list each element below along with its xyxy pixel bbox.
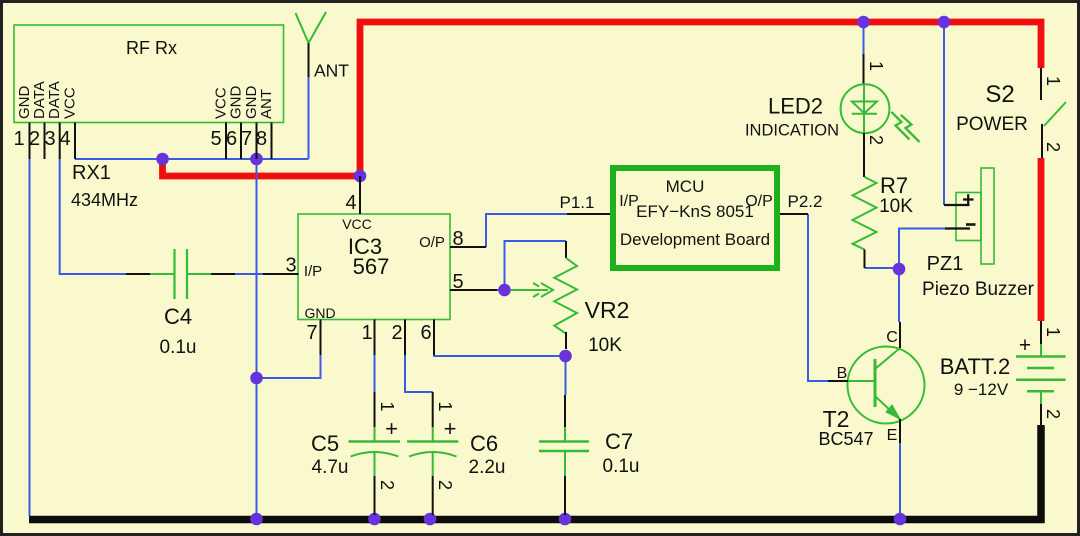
svg-text:C4: C4 [164,304,192,329]
wire node junction up to PZ1 minus [899,229,945,270]
svg-text:3: 3 [285,255,296,277]
wire node junction down to T2 collector [898,269,900,322]
svg-text:1: 1 [361,322,372,344]
svg-text:C7: C7 [605,429,633,454]
svg-text:BATT.2: BATT.2 [940,354,1011,379]
svg-text:C5: C5 [311,431,339,456]
svg-text:GND: GND [228,86,245,120]
svg-text:1: 1 [866,61,886,71]
svg-text:E: E [887,427,898,444]
svg-text:VR2: VR2 [585,297,630,323]
svg-text:2: 2 [29,128,40,150]
svg-text:VCC: VCC [62,87,79,119]
wire GND vertical x256 [256,159,258,516]
svg-text:POWER: POWER [956,114,1028,135]
junction PZ1 VCC tap [938,16,951,29]
wire IC3 pin2 jog to C6 [405,355,433,392]
svg-text:8: 8 [452,228,463,250]
wire IC3 pin7 to GND vertical [257,355,321,378]
svg-text:0.1u: 0.1u [160,337,197,358]
svg-text:ANT: ANT [314,61,349,81]
junction bus GND vertical [250,513,263,526]
resistor R7 [853,173,914,268]
buzzer PZ1 Piezo Buzzer [922,168,1035,300]
svg-text:567: 567 [353,254,390,279]
wire T2 emitter down to bus [899,443,901,516]
wire VCC junction down to LED2 pin1 [863,22,865,54]
svg-text:R7: R7 [880,173,908,198]
svg-text:I/P: I/P [304,263,322,280]
capacitor C5 (electrolytic) [311,392,400,515]
svg-text:1: 1 [1043,327,1063,337]
svg-text:2: 2 [1043,409,1063,419]
junction IC3 pin7 GND node [250,372,263,385]
svg-text:1: 1 [377,402,397,412]
pin stub RX1 pin2 [44,123,46,160]
pin stub RX1 pin3 [59,123,61,160]
svg-text:LED2: LED2 [768,94,823,119]
svg-text:6: 6 [420,322,431,344]
pin stub MCU I/P [567,213,610,215]
pin stub IC3 pin2 [404,320,406,356]
wire IC3 pin6 to VR2 bottom junction [434,355,566,356]
svg-text:9 −12V: 9 −12V [954,380,1009,399]
battery BATT.2 [940,321,1066,427]
net GND black bus [29,425,1041,520]
svg-text:RF Rx: RF Rx [126,38,177,58]
wire VCC junction down to PZ1 plus [943,22,945,205]
svg-text:+: + [444,416,457,441]
pin stub MCU O/P [780,213,808,215]
svg-text:PZ1: PZ1 [927,253,964,275]
svg-text:2: 2 [435,480,455,490]
svg-text:MCU: MCU [666,177,705,196]
svg-text:C6: C6 [470,431,498,456]
junction VR2 wiper node [498,284,511,297]
junction bus C6 [424,513,437,526]
wire RFRx pin row horizontal [75,158,309,160]
svg-text:5: 5 [452,271,463,293]
svg-text:2: 2 [866,135,886,145]
junction GND pins 6-7 [250,153,263,166]
svg-text:+: + [1019,334,1031,357]
svg-text:S2: S2 [985,81,1014,108]
wire wiper junction up to VR2 top [505,241,567,290]
wire RFRx pin1 GND down to bus [29,159,31,516]
svg-text:ANT: ANT [258,89,275,119]
pin stub IC3 pin4 VCC [359,176,361,214]
capacitor C7 [539,395,639,515]
junction IC3 VCC tap [354,170,367,183]
wire IC3 pin8 to MCU P1.1 [486,214,567,247]
junction LED2 VCC tap [857,16,870,29]
svg-text:2: 2 [1043,142,1063,152]
capacitor C4 [126,249,235,358]
pin stub RX1 pin4 [74,123,76,160]
wire VR2 bottom junction down to C7 [565,356,567,395]
svg-text:VCC: VCC [342,216,372,232]
pin stub IC3 pin1 [374,320,376,356]
svg-text:6: 6 [226,128,237,150]
pin stub RX1 pin1 [29,123,31,160]
svg-text:BC547: BC547 [818,429,873,449]
svg-text:2: 2 [391,322,402,344]
junction bus C7 [559,513,572,526]
pin stub RX1 pin6 [240,123,242,160]
svg-text:1: 1 [435,402,455,412]
pin stub RX1 pin8 [271,123,273,160]
junction bus T2 emitter [894,513,907,526]
wire RFRx pin3 DATA down to C4 [60,159,126,274]
svg-text:C: C [886,329,898,346]
wire R7 bottom to node junction [865,268,900,269]
svg-text:0.1u: 0.1u [603,456,640,477]
switch S2 POWER [956,68,1066,158]
pin stub IC3 pin7 GND [320,320,322,356]
wire C4 to IC3 I/P [235,273,263,275]
junction VR2 bottom node [559,350,572,363]
pin stub IC3 pin5 [450,289,497,291]
pin stub IC3 pin3 I/P [263,273,299,275]
svg-text:8: 8 [256,128,267,150]
svg-text:Development Board: Development Board [620,230,770,249]
svg-text:4.7u: 4.7u [312,457,349,478]
pin stub IC3 pin6 [433,320,435,356]
svg-text:EFY−KnS 8051: EFY−KnS 8051 [636,202,754,221]
svg-text:+: + [385,416,398,441]
svg-text:1: 1 [13,128,24,150]
op IC3 567 tone decoder box [298,214,450,321]
module U1 MCU EFY-KnS 8051 Development Board [613,168,777,268]
junction R7-PZ1-T2 node [893,263,906,276]
wire IC3 pin1 down to C5 [374,355,376,392]
pin stub RX1 pin5 [225,123,227,160]
net VCC red rail [163,22,1042,321]
wire IC3 pin5 to VR2 wiper junction [497,289,505,291]
svg-text:P2.2: P2.2 [788,192,823,211]
potentiometer VR2 [511,241,629,356]
svg-text:10K: 10K [588,335,622,356]
svg-text:INDICATION: INDICATION [745,122,839,140]
svg-text:7: 7 [241,128,252,150]
svg-text:2: 2 [377,480,397,490]
svg-text:4: 4 [59,128,70,150]
svg-text:P1.1: P1.1 [560,193,595,212]
svg-text:O/P: O/P [419,234,445,251]
wire antenna down to pin8 [308,77,310,159]
junction bus C5 [368,513,381,526]
svg-text:GND: GND [304,305,335,321]
svg-text:4: 4 [345,192,356,214]
light arrows [891,112,909,140]
junction VCC-RX1 [156,153,169,166]
svg-text:B: B [837,365,848,382]
svg-text:434MHz: 434MHz [71,190,138,210]
capacitor C6 (electrolytic) [407,392,505,515]
antenna ANT [296,12,350,81]
diode LED2 [745,54,920,177]
svg-text:7: 7 [306,322,317,344]
svg-text:1: 1 [1043,76,1063,86]
module RX1 RF Rx box [14,25,284,123]
transistor T2 BC547 [818,322,924,449]
pin stub RX1 pin7 [256,123,258,160]
svg-text:5: 5 [210,128,221,150]
pin stub IC3 pin8 O/P [450,246,486,248]
svg-text:10K: 10K [879,196,913,217]
wire MCU P2.2 to T2 base [808,214,828,381]
svg-text:Piezo Buzzer: Piezo Buzzer [922,279,1035,300]
svg-text:3: 3 [44,128,55,150]
svg-text:RX1: RX1 [72,162,111,184]
svg-text:2.2u: 2.2u [469,457,506,478]
